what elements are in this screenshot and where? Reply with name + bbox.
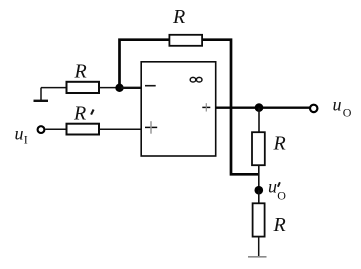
svg-text:R: R xyxy=(172,6,185,28)
wire node A to op-amp inverting input xyxy=(120,87,142,89)
output wire op-amp to terminal xyxy=(216,106,310,108)
svg-text:O: O xyxy=(277,189,286,203)
svg-text:O: O xyxy=(343,106,352,120)
wire u_I to R2 xyxy=(45,128,66,130)
wire R5 to ground xyxy=(258,237,260,257)
svg-text:R: R xyxy=(273,214,286,236)
resistor R3 (feedback R) xyxy=(169,35,202,46)
svg-text:R: R xyxy=(73,102,86,124)
ground (bottom) xyxy=(248,256,267,258)
terminal u_I xyxy=(38,126,45,133)
svg-text:u: u xyxy=(333,94,342,114)
op-amp gain symbol (infinity) xyxy=(190,77,202,82)
wire ground to R1 xyxy=(41,87,66,89)
resistor R4 (upper divider R) xyxy=(252,132,265,165)
op-amp inverting input marker - xyxy=(145,85,156,87)
wire node u'_O to R5 xyxy=(258,190,260,203)
op-amp non-inverting input marker + xyxy=(145,121,157,134)
terminal u_O xyxy=(310,105,317,112)
wire R1 to node A xyxy=(100,87,120,89)
feedback wire (node A up, across top, down right side, to node u'_O) xyxy=(120,40,170,90)
svg-text:R: R xyxy=(273,133,286,155)
node u'_O (junction dot) xyxy=(254,186,263,195)
svg-text:R: R xyxy=(74,61,87,83)
svg-text:u: u xyxy=(268,177,277,197)
resistor R5 (lower divider R) xyxy=(253,203,265,236)
resistor R1 xyxy=(67,82,100,93)
node A (junction dot at inverting input) xyxy=(115,84,123,92)
svg-text:I: I xyxy=(24,132,28,146)
wire R2 to op-amp non-inverting input xyxy=(100,128,142,130)
op-amp U1 xyxy=(141,62,216,156)
svg-text:u: u xyxy=(15,123,24,143)
feedback wire continued xyxy=(203,40,259,175)
wire node to R4 xyxy=(258,108,260,133)
wire R4 to node u'_O xyxy=(258,165,260,190)
node at output divider tap xyxy=(255,103,264,112)
op-amp output marker + xyxy=(202,103,210,111)
resistor R2 (R') xyxy=(67,124,100,135)
ground (left, at inverting input network) xyxy=(34,88,49,101)
